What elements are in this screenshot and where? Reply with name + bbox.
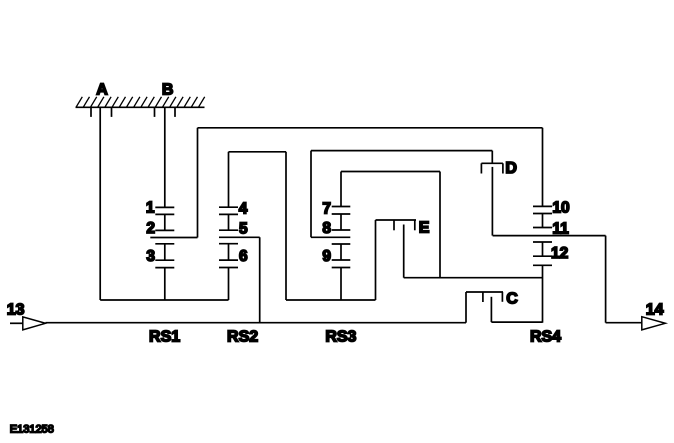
gearset RS2 element 4 bars	[219, 207, 238, 214]
svg-text:8: 8	[322, 220, 331, 237]
output wire from RS4 carrier	[606, 236, 642, 323]
wire to clutch D	[311, 151, 492, 238]
gearset RS1 element 1 bars	[155, 207, 174, 214]
svg-text:B: B	[162, 81, 174, 98]
svg-text:A: A	[96, 82, 108, 99]
gearset RS1 element 3 bars	[155, 244, 174, 268]
gearset RS3 element 9 bars	[332, 244, 351, 268]
svg-text:RS4: RS4	[530, 329, 561, 346]
gearset RS2 element 5 bars	[219, 229, 238, 231]
wire RS2 carrier to input shaft	[259, 237, 261, 322]
RS1 ring wire to bus	[164, 268, 166, 300]
RS2 carrier wire	[219, 236, 260, 238]
svg-text:5: 5	[239, 221, 248, 238]
svg-text:E131258: E131258	[10, 424, 54, 436]
RS2 shaft wire 4-5	[228, 214, 230, 230]
RS4 ring wire down	[542, 265, 544, 322]
RS4 carrier wire (output)	[493, 235, 606, 237]
clutch C output wire	[491, 321, 542, 323]
RS3 ring wire to bus	[340, 268, 342, 301]
left ground bus wire	[100, 299, 228, 301]
gearset RS2 element 6 bars	[219, 244, 238, 268]
input arrow 13	[10, 317, 46, 330]
svg-text:RS1: RS1	[149, 328, 180, 345]
fixed housing hatched bar	[76, 97, 205, 108]
clutch E	[376, 220, 417, 300]
RS4 shaft wire 10-11	[542, 214, 544, 228]
wire RS3 sun rail	[341, 172, 440, 278]
svg-text:RS2: RS2	[227, 328, 258, 345]
svg-text:3: 3	[146, 248, 155, 265]
gearset RS3 element 7 bars	[332, 207, 351, 215]
wire top rail to RS4	[542, 128, 544, 207]
svg-text:9: 9	[322, 248, 331, 265]
RS3 shaft wire 7-8	[340, 214, 342, 230]
RS1 shaft wire 1-2	[164, 214, 166, 230]
brake B teeth	[155, 107, 176, 117]
brake A teeth	[91, 107, 112, 117]
bracket wire RS2 sun	[229, 152, 287, 300]
gearset RS4 element 12 bars	[533, 242, 552, 265]
RS3 carrier wire	[311, 236, 350, 238]
svg-text:10: 10	[552, 199, 569, 216]
svg-text:13: 13	[7, 302, 25, 319]
svg-text:14: 14	[646, 302, 664, 319]
svg-text:7: 7	[322, 201, 331, 218]
svg-text:D: D	[505, 160, 517, 177]
svg-text:6: 6	[239, 248, 248, 265]
right ground bus wire	[286, 299, 376, 301]
gearset RS4 element 10 bars	[533, 206, 552, 213]
clutch E output bus wire	[404, 277, 543, 279]
clutch D	[481, 163, 503, 235]
svg-text:12: 12	[551, 245, 568, 262]
gearset RS4 element 11 bars	[533, 227, 552, 229]
svg-text:4: 4	[239, 201, 248, 218]
RS2 ring wire to bus	[228, 268, 230, 301]
svg-text:1: 1	[146, 200, 155, 217]
RS1 carrier wire	[150, 237, 197, 239]
gearset RS1 element 2 bars	[155, 229, 174, 231]
clutch C	[466, 292, 503, 323]
input shaft wire	[46, 322, 467, 324]
top rail wire	[198, 127, 543, 129]
gearset RS3 element 8 bars	[332, 229, 351, 231]
svg-text:E: E	[419, 219, 430, 236]
svg-text:2: 2	[146, 220, 155, 237]
svg-text:RS3: RS3	[325, 329, 356, 346]
brake A shaft wire	[99, 107, 101, 300]
wire RS1 carrier to top rail	[197, 128, 199, 238]
brake B shaft wire	[164, 107, 166, 207]
output arrow 14	[642, 317, 666, 330]
svg-text:C: C	[506, 290, 518, 307]
